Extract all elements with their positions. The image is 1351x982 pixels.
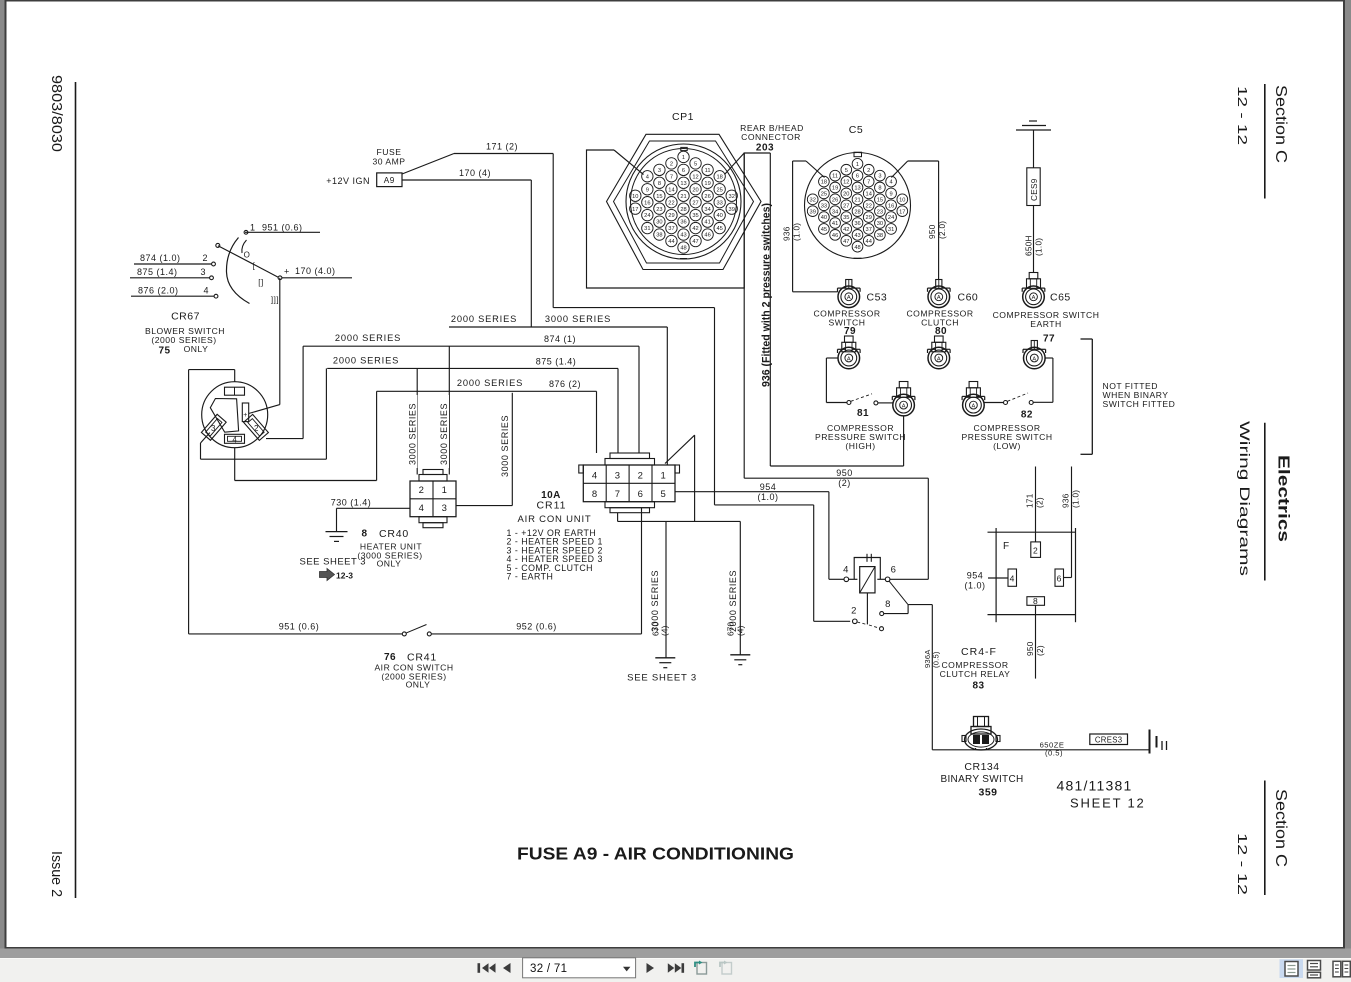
svg-text:19: 19 <box>832 186 838 192</box>
svg-text:(2): (2) <box>1036 497 1045 508</box>
svg-text:3: 3 <box>442 503 448 514</box>
svg-text:2: 2 <box>638 471 644 482</box>
svg-text:11: 11 <box>705 168 711 174</box>
svg-text:27: 27 <box>843 203 849 209</box>
svg-text:79: 79 <box>844 326 856 337</box>
svg-text:31: 31 <box>644 226 650 232</box>
svg-text:11: 11 <box>832 174 838 180</box>
svg-text:30: 30 <box>877 221 883 227</box>
svg-text:17: 17 <box>899 209 905 215</box>
svg-text:4: 4 <box>843 565 849 576</box>
svg-text:39: 39 <box>729 207 735 213</box>
svg-text:A: A <box>847 356 851 362</box>
svg-text:F: F <box>1003 541 1010 552</box>
svg-text:952 (0.6): 952 (0.6) <box>516 622 557 632</box>
svg-text:83: 83 <box>972 681 984 692</box>
svg-text:SWITCH FITTED: SWITCH FITTED <box>1103 399 1176 409</box>
svg-text:CR11: CR11 <box>536 500 566 512</box>
svg-text:2: 2 <box>254 424 259 433</box>
svg-text:FUSE A9 - AIR CONDITIONING: FUSE A9 - AIR CONDITIONING <box>517 844 794 864</box>
svg-text:12 - 12: 12 - 12 <box>1235 833 1250 895</box>
svg-text:42: 42 <box>692 226 698 232</box>
svg-text:CP1: CP1 <box>672 111 694 123</box>
svg-text:6: 6 <box>682 168 685 174</box>
svg-text:C53: C53 <box>867 292 888 304</box>
svg-text:21: 21 <box>854 197 860 203</box>
svg-text:15: 15 <box>656 194 662 200</box>
svg-text:20: 20 <box>692 187 698 193</box>
svg-text:(1.0): (1.0) <box>1035 238 1044 256</box>
svg-text:9: 9 <box>646 187 649 193</box>
svg-text:3000 SERIES: 3000 SERIES <box>545 314 611 324</box>
svg-text:47: 47 <box>843 239 849 245</box>
svg-text:40: 40 <box>821 215 827 221</box>
svg-text:Section C: Section C <box>1272 789 1289 867</box>
svg-text:14: 14 <box>668 187 674 193</box>
svg-text:(HIGH): (HIGH) <box>845 441 875 451</box>
svg-text:46: 46 <box>704 233 710 239</box>
svg-text:]]]: ]]] <box>271 296 279 305</box>
svg-text:A: A <box>1032 356 1036 362</box>
svg-text:A: A <box>1032 295 1036 301</box>
svg-text:45: 45 <box>821 227 827 233</box>
svg-text:+: + <box>243 412 248 419</box>
svg-text:5: 5 <box>845 168 848 174</box>
svg-text:12: 12 <box>843 180 849 186</box>
svg-text:CLUTCH RELAY: CLUTCH RELAY <box>940 669 1011 679</box>
svg-text:Issue 2: Issue 2 <box>48 851 64 897</box>
svg-text:SHEET 12: SHEET 12 <box>1070 796 1146 811</box>
svg-text:2: 2 <box>670 161 673 167</box>
svg-text:38: 38 <box>877 233 883 239</box>
svg-text:(1.0): (1.0) <box>964 581 985 591</box>
svg-text:170 (4.0): 170 (4.0) <box>295 266 336 276</box>
svg-text:41: 41 <box>832 221 838 227</box>
svg-text:4: 4 <box>419 503 425 514</box>
svg-text:2000 SERIES: 2000 SERIES <box>333 356 399 366</box>
svg-text:SEE SHEET 3: SEE SHEET 3 <box>627 673 697 684</box>
svg-text:30 AMP: 30 AMP <box>372 157 405 167</box>
svg-text:7: 7 <box>670 174 673 180</box>
svg-text:13: 13 <box>854 186 860 192</box>
svg-text:3: 3 <box>615 471 621 482</box>
svg-text:25: 25 <box>716 187 722 193</box>
svg-text:16: 16 <box>644 200 650 206</box>
svg-text:43: 43 <box>854 233 860 239</box>
svg-text:(2): (2) <box>838 478 851 488</box>
svg-text:A: A <box>937 295 941 301</box>
svg-text:4: 4 <box>890 180 893 186</box>
svg-text:24: 24 <box>644 213 650 219</box>
svg-text:46: 46 <box>832 233 838 239</box>
svg-text:Electrics: Electrics <box>1275 455 1292 542</box>
svg-text:29: 29 <box>866 215 872 221</box>
svg-text:45: 45 <box>716 226 722 232</box>
svg-text:874 (1.0): 874 (1.0) <box>140 253 181 263</box>
svg-text:7: 7 <box>867 180 870 186</box>
svg-text:26: 26 <box>704 194 710 200</box>
svg-text:3: 3 <box>878 174 881 180</box>
svg-text:35: 35 <box>692 213 698 219</box>
svg-text:6: 6 <box>638 489 644 500</box>
svg-text:CRES3: CRES3 <box>1095 736 1123 745</box>
svg-text:80: 80 <box>935 326 947 337</box>
svg-text:481/11381: 481/11381 <box>1057 778 1133 794</box>
svg-text:8: 8 <box>885 599 891 610</box>
svg-text:670: 670 <box>652 621 661 636</box>
svg-text:32: 32 <box>810 197 816 203</box>
svg-text:48: 48 <box>680 246 686 252</box>
svg-text:950: 950 <box>836 468 853 478</box>
svg-text:2: 2 <box>202 253 208 263</box>
svg-text:48: 48 <box>854 245 860 251</box>
svg-text:CR4-F: CR4-F <box>961 646 997 658</box>
svg-text:28: 28 <box>854 209 860 215</box>
svg-text:1: 1 <box>250 223 256 233</box>
svg-text:CR40: CR40 <box>379 528 409 540</box>
svg-text:30: 30 <box>656 220 662 226</box>
svg-text:1: 1 <box>661 471 667 482</box>
svg-text:2: 2 <box>867 168 870 174</box>
svg-text:(0.5): (0.5) <box>1045 748 1063 757</box>
svg-text:6: 6 <box>1057 574 1062 584</box>
svg-text:A: A <box>972 404 976 410</box>
svg-text:15: 15 <box>877 197 883 203</box>
svg-text:Wiring Diagrams: Wiring Diagrams <box>1237 421 1253 576</box>
svg-text:1: 1 <box>682 155 685 161</box>
svg-text:20: 20 <box>843 192 849 198</box>
svg-text:730 (1.4): 730 (1.4) <box>331 498 372 508</box>
svg-text:[]: [] <box>258 278 263 287</box>
svg-text:8: 8 <box>878 186 881 192</box>
svg-text:ONLY: ONLY <box>406 680 431 690</box>
svg-text:876 (2): 876 (2) <box>549 379 581 389</box>
svg-text:2: 2 <box>1033 546 1038 556</box>
svg-text:2: 2 <box>419 485 425 496</box>
svg-text:876 (2.0): 876 (2.0) <box>138 286 179 296</box>
svg-text:28: 28 <box>680 207 686 213</box>
svg-text:19: 19 <box>704 181 710 187</box>
svg-text:41: 41 <box>704 220 710 226</box>
svg-text:CES9: CES9 <box>1030 178 1039 201</box>
svg-text:A: A <box>937 356 941 362</box>
svg-text:3000 SERIES: 3000 SERIES <box>439 403 449 465</box>
svg-text:35: 35 <box>843 215 849 221</box>
svg-text:954: 954 <box>967 571 984 581</box>
svg-text:23: 23 <box>656 207 662 213</box>
svg-text:3: 3 <box>211 424 216 433</box>
svg-text:42: 42 <box>843 227 849 233</box>
svg-text:4: 4 <box>232 436 237 445</box>
svg-text:+: + <box>284 267 290 277</box>
svg-text:12-3: 12-3 <box>336 571 353 581</box>
svg-text:29: 29 <box>668 213 674 219</box>
svg-text:C60: C60 <box>958 292 979 304</box>
svg-text:4: 4 <box>203 286 209 296</box>
svg-text:951 (0.6): 951 (0.6) <box>262 223 303 233</box>
svg-text:650H: 650H <box>1025 235 1034 256</box>
svg-text:2: 2 <box>851 606 857 617</box>
svg-text:A: A <box>902 404 906 410</box>
svg-text:C65: C65 <box>1050 292 1071 304</box>
svg-text:171 (2): 171 (2) <box>486 142 518 152</box>
svg-text:3: 3 <box>658 168 661 174</box>
svg-text:4: 4 <box>646 174 649 180</box>
svg-text:2000 SERIES: 2000 SERIES <box>335 333 401 343</box>
svg-text:8: 8 <box>1033 596 1038 606</box>
svg-text:43: 43 <box>680 233 686 239</box>
svg-text:32 / 71: 32 / 71 <box>530 963 567 975</box>
svg-text:8: 8 <box>361 529 367 540</box>
svg-text:39: 39 <box>810 209 816 215</box>
svg-text:954: 954 <box>760 482 777 492</box>
svg-text:81: 81 <box>857 408 869 419</box>
svg-text:17: 17 <box>632 207 638 213</box>
svg-text:44: 44 <box>668 239 674 245</box>
svg-text:3000 SERIES: 3000 SERIES <box>408 403 418 465</box>
svg-text:1: 1 <box>442 485 448 496</box>
svg-text:40: 40 <box>716 213 722 219</box>
svg-text:(2): (2) <box>1036 645 1045 656</box>
svg-text:875 (1.4): 875 (1.4) <box>536 357 577 367</box>
svg-text:ONLY: ONLY <box>377 559 402 569</box>
svg-text:170 (4): 170 (4) <box>459 168 491 178</box>
svg-text:(1.0): (1.0) <box>793 223 802 241</box>
svg-text:2000 SERIES: 2000 SERIES <box>451 314 517 324</box>
svg-text:75: 75 <box>158 346 170 357</box>
svg-text:77: 77 <box>1043 334 1055 345</box>
svg-text:6: 6 <box>891 565 897 576</box>
svg-text:936: 936 <box>1062 493 1071 508</box>
svg-text:26: 26 <box>832 197 838 203</box>
svg-text:10: 10 <box>899 197 905 203</box>
svg-text:14: 14 <box>866 192 872 198</box>
svg-text:23: 23 <box>877 209 883 215</box>
svg-text:31: 31 <box>888 227 894 233</box>
svg-text:24: 24 <box>888 215 894 221</box>
svg-text:(0.5): (0.5) <box>932 651 941 668</box>
svg-text:951 (0.6): 951 (0.6) <box>279 622 320 632</box>
svg-text:9: 9 <box>890 192 893 198</box>
svg-text:(LOW): (LOW) <box>993 441 1021 451</box>
svg-text:(2.0): (2.0) <box>938 221 947 239</box>
svg-text:25: 25 <box>821 192 827 198</box>
svg-text:82: 82 <box>1021 410 1033 421</box>
svg-text:18: 18 <box>716 174 722 180</box>
svg-text:AIR CON UNIT: AIR CON UNIT <box>518 514 592 525</box>
svg-text:CONNECTOR: CONNECTOR <box>741 132 801 142</box>
svg-text:27: 27 <box>692 200 698 206</box>
svg-text:7: 7 <box>615 489 621 500</box>
svg-text:[: [ <box>253 262 256 271</box>
svg-text:4: 4 <box>592 471 598 482</box>
svg-text:9803/8030: 9803/8030 <box>48 75 64 152</box>
svg-text:13: 13 <box>680 181 686 187</box>
svg-text:7 - EARTH: 7 - EARTH <box>507 572 554 582</box>
svg-text:18: 18 <box>821 180 827 186</box>
svg-text:950: 950 <box>1026 641 1035 656</box>
svg-text:37: 37 <box>668 226 674 232</box>
svg-text:33: 33 <box>821 203 827 209</box>
svg-text:21: 21 <box>680 194 686 200</box>
svg-text:6: 6 <box>856 174 859 180</box>
svg-text:(1.0): (1.0) <box>1072 490 1081 508</box>
svg-text:47: 47 <box>692 239 698 245</box>
svg-text:Section C: Section C <box>1272 85 1289 163</box>
svg-text:3000 SERIES: 3000 SERIES <box>500 415 510 477</box>
svg-text:EARTH: EARTH <box>1030 319 1061 329</box>
svg-text:CR67: CR67 <box>171 311 200 323</box>
svg-text:CR134: CR134 <box>964 761 999 773</box>
svg-text:4: 4 <box>1010 574 1015 584</box>
svg-text:670: 670 <box>727 621 736 636</box>
svg-text:BINARY SWITCH: BINARY SWITCH <box>941 774 1024 785</box>
svg-text:FUSE: FUSE <box>377 147 402 157</box>
svg-text:(1.0): (1.0) <box>757 492 778 502</box>
svg-text:874 (1): 874 (1) <box>544 334 576 344</box>
svg-text:8: 8 <box>658 181 661 187</box>
svg-text:A9: A9 <box>384 176 395 185</box>
svg-text:171: 171 <box>1026 493 1035 508</box>
svg-text:936 (Fitted with 2 pressure sw: 936 (Fitted with 2 pressure switches) <box>761 203 773 387</box>
svg-text:34: 34 <box>832 209 838 215</box>
svg-text:5: 5 <box>694 161 697 167</box>
svg-text:O: O <box>244 251 251 260</box>
svg-text:22: 22 <box>668 200 674 206</box>
svg-text:2000 SERIES: 2000 SERIES <box>457 378 523 388</box>
svg-text:203: 203 <box>756 143 774 154</box>
svg-text:37: 37 <box>866 227 872 233</box>
svg-text:1: 1 <box>856 162 859 168</box>
svg-text:875 (1.4): 875 (1.4) <box>137 267 178 277</box>
svg-text:3: 3 <box>200 267 206 277</box>
svg-text:ONLY: ONLY <box>184 344 209 354</box>
svg-text:36: 36 <box>680 220 686 226</box>
svg-text:34: 34 <box>704 207 710 213</box>
svg-text:A: A <box>847 295 851 301</box>
svg-text:8: 8 <box>592 489 598 500</box>
svg-text:38: 38 <box>656 233 662 239</box>
svg-text:359: 359 <box>978 787 997 799</box>
svg-text:+12V IGN: +12V IGN <box>326 176 370 186</box>
svg-text:76: 76 <box>384 652 396 663</box>
svg-text:22: 22 <box>866 203 872 209</box>
svg-text:(4): (4) <box>737 625 746 636</box>
svg-text:12: 12 <box>692 174 698 180</box>
svg-text:936: 936 <box>783 226 792 241</box>
svg-text:5: 5 <box>661 489 667 500</box>
svg-text:16: 16 <box>888 203 894 209</box>
svg-text:33: 33 <box>716 200 722 206</box>
svg-text:44: 44 <box>866 239 872 245</box>
svg-text:SEE SHEET 3: SEE SHEET 3 <box>300 557 367 568</box>
svg-text:36: 36 <box>854 221 860 227</box>
svg-text:(4): (4) <box>661 625 670 636</box>
svg-text:12 - 12: 12 - 12 <box>1235 86 1250 145</box>
svg-text:950: 950 <box>928 224 937 239</box>
svg-text:10: 10 <box>632 194 638 200</box>
svg-text:32: 32 <box>729 194 735 200</box>
svg-text:C5: C5 <box>849 124 863 136</box>
